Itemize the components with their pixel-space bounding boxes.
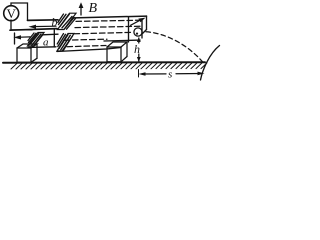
h dimension line <box>137 37 141 62</box>
hatched block right of label a <box>57 34 74 52</box>
right end slant edge <box>143 30 147 34</box>
dashed row 5 on table front face <box>67 46 106 47</box>
arrow B field <box>79 2 84 15</box>
vertical edge right of label a <box>53 29 55 47</box>
right end of plate: outer vertical edge <box>146 16 148 29</box>
rod a (hatched) <box>28 33 45 47</box>
rod b (hatched) <box>58 13 77 29</box>
landing swoosh at right <box>201 46 220 81</box>
svg-text:B: B <box>89 1 98 16</box>
back rail left segment <box>28 19 59 22</box>
wire bottom from voltmeter to front rail <box>11 20 32 30</box>
right end of plate: inner vertical edge <box>141 20 143 38</box>
s dimension line with arrows <box>139 70 205 78</box>
voltmeter V <box>4 6 19 21</box>
niche top edge above label a <box>43 33 59 36</box>
dashed row 3 on table top <box>74 32 131 33</box>
front rail <box>10 29 57 31</box>
velocity arrow of rod a <box>14 35 31 39</box>
svg-text:V: V <box>7 6 17 21</box>
floor hatching <box>11 63 207 69</box>
bottom edge right part <box>104 39 140 42</box>
svg-text:s: s <box>168 68 172 80</box>
svg-text:h: h <box>134 42 140 56</box>
floor line <box>3 61 205 64</box>
dashed row 4 on table front face <box>64 39 107 40</box>
ball at table edge <box>134 28 142 36</box>
right end vertical below <box>128 18 130 43</box>
right table leg <box>107 42 127 62</box>
back rail right segment <box>74 16 147 18</box>
wire top from voltmeter to back rail <box>11 3 28 20</box>
dashed row 2 on table top <box>75 26 141 27</box>
left end vertical edge of plate <box>14 33 16 44</box>
left table leg <box>17 44 37 62</box>
dashed row 1 on table top <box>76 20 140 21</box>
projectile trajectory (dashed) <box>146 32 203 63</box>
table slab bottom front edge <box>57 48 121 52</box>
velocity arrow of rod b <box>29 25 57 29</box>
bottom edge under rod a <box>28 46 56 49</box>
diagonal arrow at right end <box>131 18 146 26</box>
